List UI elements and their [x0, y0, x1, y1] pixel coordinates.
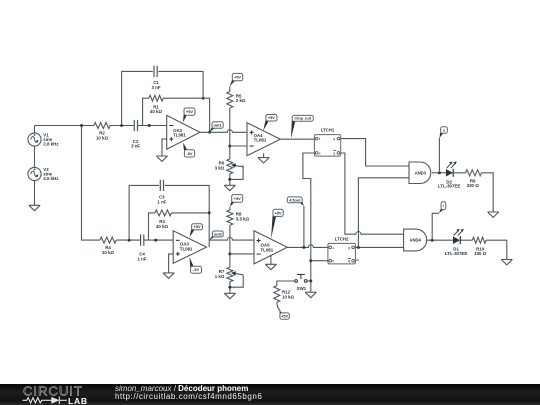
label C2 value [131, 139, 140, 149]
wire R5 to R6 [229, 108, 231, 159]
node AND3 output junction [438, 171, 441, 174]
svg-text:LTL-307EE: LTL-307EE [438, 184, 460, 189]
wire R10 to ground [486, 240, 507, 259]
wire R8 to R7 [229, 225, 231, 267]
voltage source V2 [28, 167, 41, 180]
capacitor C1 [154, 66, 157, 77]
ground R7 [224, 293, 236, 298]
ground OA4 [258, 158, 270, 163]
footer bar [0, 384, 540, 405]
svg-text:-5V: -5V [193, 267, 199, 272]
node C1-R1 junction [202, 97, 205, 100]
wire C2 to OA2 inverting input [138, 125, 167, 127]
label R3 value [156, 219, 169, 229]
label OA2 value [173, 128, 186, 138]
label R9 value [467, 179, 480, 188]
node R3 feedback tap [154, 239, 157, 242]
svg-text:TL081: TL081 [180, 246, 193, 251]
svg-text:LTCH1: LTCH1 [321, 128, 335, 133]
wire C1 to R1 net [159, 71, 204, 98]
flag +5V OA3 [190, 224, 203, 238]
wire LTCH2 q to AND4 [355, 246, 403, 248]
node R1 feedback tap [148, 124, 151, 127]
svg-text:40 kΩ: 40 kΩ [150, 109, 163, 114]
wire divider to OA4 inverting [230, 145, 247, 147]
flag node 4.5out [287, 197, 304, 206]
wire flag to R5 [229, 86, 231, 91]
node 4.5out junction [302, 246, 305, 249]
wire AND4 output to D1 [426, 239, 453, 241]
flag node out1 [210, 122, 224, 133]
footer text [115, 385, 262, 401]
label R4 value [102, 245, 115, 255]
wire up to C1 [121, 71, 123, 125]
wire V1 to V2 [34, 146, 36, 167]
svg-text:-5V: -5V [186, 151, 192, 156]
op-amp OA4 [247, 123, 280, 156]
svg-text:TL081: TL081 [254, 138, 267, 143]
wire LTCH2 q up to AND3 [358, 178, 409, 248]
svg-text:SW1: SW1 [297, 286, 307, 291]
flag +5V OA5 [271, 209, 283, 239]
wire source to R2 [35, 125, 94, 127]
node C1 feedback tap [120, 124, 123, 127]
svg-text:+5V: +5V [186, 109, 193, 114]
node C3 feedback tap [128, 239, 131, 242]
wire up to C3 [128, 185, 130, 240]
wire R9 to ground [482, 173, 494, 212]
LED D2 [446, 162, 457, 177]
flag node u [439, 127, 447, 138]
flag node i [439, 202, 446, 214]
ground OA2 input [156, 156, 168, 161]
wire LTCH1 qbar to AND4 [341, 153, 404, 234]
wire D2 to R9 [454, 172, 466, 174]
svg-text:Cmp_out: Cmp_out [294, 116, 312, 121]
resistor R9 [466, 170, 482, 176]
wire R3 to feedback vertical [172, 212, 210, 214]
label R1 value [150, 104, 163, 114]
svg-text:3 nF: 3 nF [131, 144, 140, 149]
wire input down to R4 [82, 126, 101, 241]
svg-text:q: q [348, 259, 350, 263]
ground R6 [224, 185, 236, 190]
flag +5V R5 [230, 73, 243, 86]
svg-text:AND4: AND4 [409, 238, 421, 243]
svg-text:1 kΩ: 1 kΩ [215, 274, 225, 279]
wire LTCH1 q to AND3 [341, 139, 409, 166]
svg-text:+5V: +5V [275, 210, 282, 215]
resistor R3 [155, 210, 172, 216]
svg-text:q: q [348, 246, 350, 250]
svg-text:q: q [333, 151, 335, 155]
resistor R10 [472, 237, 486, 243]
label D1 value [445, 247, 467, 256]
resistor R5 [227, 92, 233, 109]
latch LTCH1 [314, 128, 340, 157]
wire C3 right side down to OA3 output [165, 185, 209, 247]
node input junction [80, 124, 83, 127]
node out1 junction [208, 131, 211, 134]
resistor R1 [149, 95, 163, 101]
svg-text:40 kΩ: 40 kΩ [156, 224, 169, 229]
flag +5V OA2 [183, 108, 195, 122]
flag -5V OA3 [190, 257, 202, 273]
svg-text:3.5 kΩ: 3.5 kΩ [236, 216, 250, 221]
wire LTCH2 qbar stub [356, 259, 359, 261]
node divider tap lower [228, 252, 231, 255]
node enable-SW1 junction [309, 280, 312, 283]
wire R1 to out1 node [163, 98, 209, 132]
svg-text:LAB: LAB [68, 396, 88, 405]
svg-text:10 kΩ: 10 kΩ [282, 294, 295, 299]
wire enable to LTCH2 [311, 260, 328, 262]
svg-text:2 kΩ: 2 kΩ [236, 98, 246, 103]
flag +5V OA4 [263, 115, 277, 131]
svg-text:q: q [333, 137, 335, 141]
label C4 value [137, 251, 146, 261]
svg-text:330 Ω: 330 Ω [467, 183, 480, 188]
node C3-R3 junction [208, 211, 211, 214]
resistor R6 [227, 159, 243, 174]
label R2 value [96, 131, 109, 141]
wire LTCH1 enable line [303, 153, 315, 292]
CircuitLab logo [22, 384, 102, 405]
resistor R8 [227, 210, 233, 225]
node AND4 output junction [431, 239, 434, 242]
wire up to 4.5out flag [303, 206, 305, 247]
svg-text:+5V: +5V [281, 313, 288, 318]
node enable-LTCH2 junction [309, 259, 312, 262]
svg-text:1: 1 [319, 137, 321, 141]
wire up to R1 [143, 98, 149, 125]
op-amp OA5 [254, 231, 287, 264]
svg-text:+5V: +5V [234, 75, 241, 80]
svg-text:e: e [319, 151, 321, 155]
svg-text:+5V: +5V [194, 224, 201, 229]
svg-text:out2: out2 [214, 231, 223, 236]
wire OA3 noninverting to ground [169, 254, 174, 273]
label R6 value [215, 161, 225, 171]
svg-text:LTL-307EE: LTL-307EE [445, 251, 467, 256]
flag node out2 [209, 231, 223, 240]
op-amp OA3 [173, 231, 206, 264]
wire C4 to OA3 inverting input [144, 239, 173, 241]
label V2 value [43, 167, 59, 181]
svg-text:2.8 kHz: 2.8 kHz [43, 142, 59, 147]
svg-text:1 nF: 1 nF [157, 199, 166, 204]
label R5 value [236, 93, 246, 103]
node divider tap [228, 145, 231, 148]
wire OA4 output to LTCH1 [280, 138, 314, 140]
wire V2 to ground [34, 181, 36, 206]
wire divider to OA5 inverting [230, 253, 254, 255]
label R12 value [282, 290, 295, 300]
flag -5V OA2 [183, 143, 195, 158]
wire R7 wiper loop [230, 275, 243, 287]
flag +5V R8 [230, 195, 243, 207]
label V1 value [43, 132, 59, 146]
node R7 wiper junction [228, 286, 231, 289]
ground OA3 input [163, 273, 175, 278]
svg-text:TL081: TL081 [173, 133, 186, 138]
and gate AND4 [404, 229, 427, 251]
wire R12 to +5V flag [277, 302, 280, 311]
wire to C3 left plate [129, 184, 159, 186]
wire R2 to C2 [110, 125, 134, 127]
wire flag to R8 [229, 207, 231, 210]
svg-text:+5V: +5V [268, 115, 275, 120]
wire out1 to OA4 noninverting [200, 130, 247, 133]
svg-text:AND3: AND3 [415, 170, 427, 175]
svg-text:3 nF: 3 nF [151, 85, 160, 90]
op-amp OA2 [167, 115, 200, 149]
wire OA2 noninverting to ground [162, 139, 167, 156]
latch LTCH2 [328, 236, 356, 264]
node R6 wiper junction [228, 178, 231, 181]
svg-text:i: i [443, 204, 444, 208]
wire up to output flag i [432, 213, 439, 240]
svg-text:4.5 kHz: 4.5 kHz [43, 176, 59, 181]
svg-text:out1: out1 [213, 123, 222, 128]
capacitor C4 [141, 235, 144, 246]
svg-text:10 kΩ: 10 kΩ [96, 135, 109, 140]
wire AND3 output to D2 [432, 172, 446, 174]
svg-text:10 kΩ: 10 kΩ [102, 250, 115, 255]
svg-text:1 nF: 1 nF [137, 256, 146, 261]
voltage source V1 [28, 133, 41, 146]
wire OA5 output to LTCH2 [287, 245, 328, 248]
wire SW1 to R12 [277, 281, 295, 286]
ground below V2 [29, 205, 41, 210]
node LTCH2 q junction [357, 246, 360, 249]
wire to C1 left plate [122, 70, 153, 72]
label C3 value [157, 195, 166, 205]
wire R7 to ground [229, 282, 231, 294]
svg-text:3 kΩ: 3 kΩ [215, 166, 225, 171]
svg-text:1: 1 [332, 246, 334, 250]
resistor R12 [274, 286, 280, 303]
capacitor C3 [160, 180, 163, 191]
ground R9 [487, 212, 499, 217]
wire SW1 to enable line [307, 280, 311, 282]
wire D1 to R10 [461, 239, 473, 241]
svg-text:LTCH2: LTCH2 [335, 236, 349, 241]
label SW1 [297, 286, 307, 291]
svg-text:TL081: TL081 [261, 247, 274, 252]
label D2 value [438, 179, 460, 188]
resistor R2 [94, 123, 110, 129]
label C1 value [151, 80, 160, 90]
wire up to output flag u [438, 138, 440, 173]
svg-text:u: u [443, 128, 445, 132]
svg-text:e: e [332, 259, 334, 263]
ground OA5 [265, 264, 277, 269]
svg-text:330 Ω: 330 Ω [474, 251, 487, 256]
label R8 value [236, 212, 250, 222]
label R7 value [215, 269, 225, 279]
switch SW1 [295, 275, 307, 283]
resistor R4 [100, 237, 116, 243]
svg-text:4.5out: 4.5out [289, 197, 301, 202]
ground enable line [305, 292, 317, 297]
LED D1 [453, 229, 464, 244]
flag +5V R12 [280, 311, 290, 319]
ground R10 [501, 260, 513, 265]
wire OA5 to ground [270, 256, 272, 265]
wire V1 top [34, 126, 36, 133]
wire OA4 to ground [263, 153, 265, 157]
flag node Cmp_out [291, 115, 313, 138]
label R10 value [474, 247, 487, 256]
capacitor C2 [134, 120, 137, 131]
wire out2 to OA5 noninverting [209, 238, 254, 241]
label OA5 value [261, 243, 274, 253]
wire up to R3 [149, 213, 156, 240]
resistor R7 [227, 267, 243, 282]
wire R6 wiper loop [230, 165, 243, 179]
wire R4 to C4 [116, 239, 140, 241]
wire R6 to ground [229, 174, 231, 185]
label OA4 value [254, 133, 267, 143]
label OA3 value [180, 242, 193, 252]
and gate AND3 [409, 162, 431, 184]
svg-text:+5V: +5V [234, 196, 241, 201]
